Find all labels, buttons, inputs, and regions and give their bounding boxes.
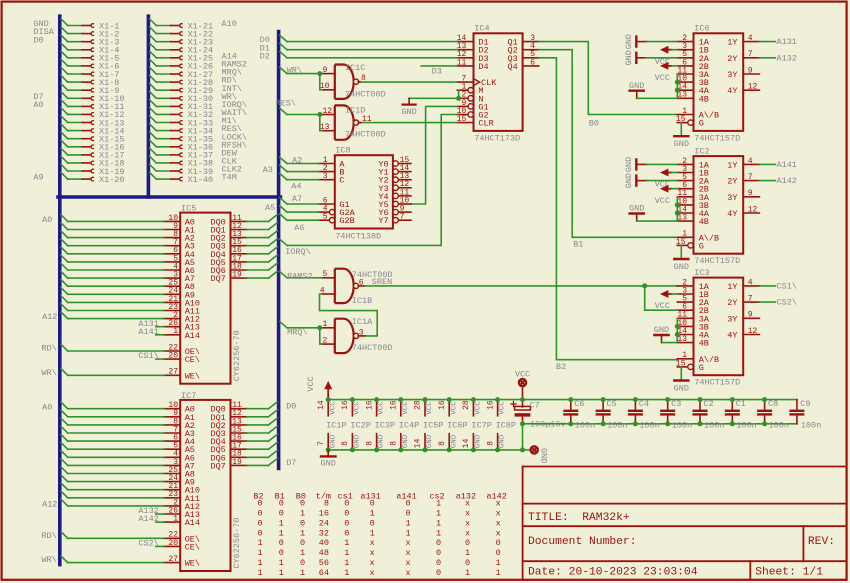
wire MRQ (bus B3 to IC1A) [280, 322, 322, 345]
svg-text:G: G [699, 241, 704, 251]
svg-text:0: 0 [370, 499, 375, 509]
svg-text:RES\: RES\ [276, 98, 296, 108]
svg-text:A14: A14 [185, 331, 200, 341]
svg-text:2Y: 2Y [727, 54, 737, 64]
svg-text:GND: GND [321, 459, 336, 469]
truth table row 7 [258, 558, 501, 568]
junction C7 bank [520, 421, 525, 426]
net label D0 (bus B3, IC7) [286, 401, 296, 411]
svg-text:1: 1 [344, 548, 349, 558]
net label LOCK\ (X1-35) [222, 132, 248, 142]
wire A5 (bus B1 to IC5) [61, 255, 164, 262]
IC2 pin 7 2Y [727, 173, 759, 187]
svg-text:16: 16 [319, 509, 329, 519]
junction IC7P GND [471, 447, 476, 452]
svg-text:DQ7: DQ7 [210, 274, 225, 284]
svg-text:74HCT00D: 74HCT00D [345, 130, 386, 140]
svg-text:1: 1 [258, 548, 263, 558]
IC8 pin 9 Y6 [378, 205, 411, 219]
svg-text:WE\: WE\ [185, 371, 200, 381]
svg-text:1: 1 [344, 558, 349, 568]
IC1D value 74HCT00D [345, 130, 386, 140]
wire IC1A out to IC1B pin4 [320, 294, 378, 336]
svg-text:1: 1 [258, 568, 263, 578]
svg-text:GND: GND [629, 81, 644, 91]
truth table row 4 [258, 528, 501, 538]
svg-text:B1: B1 [573, 239, 583, 249]
net label RD\ (X1-28) [222, 76, 237, 86]
svg-text:3: 3 [359, 328, 364, 337]
IC6 pin 12 4Y [727, 83, 759, 97]
svg-text:7: 7 [748, 173, 753, 182]
wire VCC to IC6 2B [672, 65, 678, 67]
svg-text:1: 1 [279, 558, 284, 568]
svg-text:7: 7 [748, 295, 753, 304]
svg-text:B2: B2 [556, 362, 566, 372]
wire CS1\ (IC3 output) [759, 285, 775, 287]
svg-text:1: 1 [300, 528, 305, 538]
IC4 pin 13 D2 [457, 42, 489, 56]
connector pin X1-28 [150, 76, 214, 88]
junction C8 bottom [762, 421, 767, 426]
truth table row 2 [258, 509, 501, 519]
wire A7 (bus B1 to IC7) [61, 459, 164, 466]
svg-text:VCC: VCC [450, 401, 458, 415]
IC6 pin 5 2A [677, 50, 710, 64]
wire GND rail [328, 449, 522, 451]
net label A10 (X1-21) [222, 19, 237, 29]
svg-text:WR\: WR\ [287, 65, 302, 75]
net label CS1\ [777, 282, 797, 292]
net label M1\ (X1-33) [222, 116, 237, 126]
IC5 pin 12 DQ1 [210, 222, 246, 236]
IC7 pin 25 A8 [164, 466, 195, 480]
IC8 pin 14 Y1 [378, 164, 411, 178]
wire A141 (IC5 A14) [156, 334, 164, 336]
net label A0 (bus B1) [33, 100, 43, 110]
svg-text:VCC: VCC [475, 401, 483, 415]
connector pin X1-38 [150, 156, 214, 168]
svg-text:56: 56 [319, 558, 329, 568]
svg-text:16: 16 [438, 400, 447, 410]
svg-text:32: 32 [319, 528, 329, 538]
net label A0 (IC5) [42, 215, 52, 225]
IC2 pin 15 G [676, 238, 704, 252]
svg-text:64: 64 [319, 568, 329, 578]
connector pin X1-27 [150, 67, 214, 79]
IC2 pin 3 1B [677, 165, 709, 179]
IC4 pin 6 Q4 [507, 58, 538, 72]
junction C6 bottom [568, 421, 573, 426]
svg-text:x: x [370, 538, 375, 548]
svg-text:G2B: G2B [339, 216, 354, 226]
wire RAMS2 (bus B3 to IC1B) [280, 272, 322, 278]
IC7 pin 10 A0 [164, 401, 195, 415]
power VCC arrow (IC2 1B) [655, 169, 672, 190]
connector pin X1-5 [61, 51, 119, 63]
IC4 pin 9 G1 [457, 99, 488, 113]
wire A2 (bus B1 to IC7) [61, 418, 164, 425]
svg-text:1Y: 1Y [727, 38, 737, 48]
svg-text:CS1\: CS1\ [777, 282, 797, 292]
C6 name [574, 399, 584, 409]
svg-text:1: 1 [436, 499, 441, 509]
IC3 pin 4 1Y [727, 278, 759, 292]
wire DQ1 IC7 to bus B3 [247, 410, 278, 417]
wire WR (bus B3 to IC1C) [280, 67, 322, 89]
svg-text:0: 0 [406, 509, 411, 519]
svg-text:A4: A4 [291, 182, 301, 192]
junction SREN (IC3) [642, 283, 647, 288]
ground GND (IC6 3A-4B) [629, 81, 644, 98]
wire GND to IC6 1A [646, 41, 677, 43]
IC7 name [181, 391, 196, 401]
IC4 pin 12 D3 [457, 50, 489, 64]
svg-text:CS2\: CS2\ [138, 539, 158, 549]
IC3 box [694, 278, 744, 376]
junction IC5P VCC [423, 397, 428, 402]
wire DQ0 IC5 to bus B3 [247, 215, 278, 222]
svg-text:GND: GND [674, 383, 689, 393]
IC7 pin 12 DQ1 [210, 409, 246, 423]
svg-text:x: x [406, 548, 411, 558]
truth table row 8 [258, 568, 501, 578]
svg-text:x: x [370, 558, 375, 568]
svg-text:x: x [496, 518, 501, 528]
svg-text:A132: A132 [777, 53, 797, 63]
net label A131 [138, 319, 158, 329]
wire A0 (bus B1 to IC5) [61, 215, 164, 222]
IC5 pin 7 A3 [164, 238, 195, 252]
IC8 pin 10 Y5 [378, 196, 411, 210]
net label IORQ\ (X1-31) [222, 100, 248, 110]
truth table row 3 [258, 518, 501, 528]
C2 name [703, 399, 713, 409]
IC7 pin 11 DQ0 [210, 401, 246, 415]
wire IC1D out to IC4 CLR [361, 122, 458, 124]
wire A132 (IC6 output) [759, 57, 775, 59]
IC1D input stubs [320, 107, 335, 132]
ground bar (IC6 1A) [624, 34, 647, 49]
IC5 pin 23 A11 [164, 303, 200, 317]
C3 name [671, 399, 681, 409]
svg-text:Document Number:: Document Number: [528, 536, 636, 548]
IC2 pin 1 A\B [677, 230, 719, 244]
svg-text:A0: A0 [42, 215, 52, 225]
svg-text:x: x [465, 518, 470, 528]
IC1A input stubs [322, 320, 335, 345]
wire A4 (bus B1 to IC5) [61, 247, 164, 254]
svg-text:100n: 100n [672, 420, 692, 430]
IC8 pin 1 A [319, 156, 346, 170]
IC7 pin 5 A5 [164, 442, 195, 456]
connector pin X1-21 [150, 19, 214, 31]
op-amp IC1D nand gate [335, 105, 359, 139]
svg-text:7: 7 [400, 213, 405, 222]
IC7 pin 20 CE\ [164, 539, 200, 553]
C6 value 100n [575, 420, 595, 430]
svg-text:1: 1 [300, 568, 305, 578]
IC3 pin 13 4B [677, 335, 709, 349]
IC1C name [345, 63, 365, 73]
svg-text:1: 1 [300, 509, 305, 519]
IC3 pin 15 G [676, 359, 704, 373]
svg-text:CLR: CLR [478, 119, 493, 129]
IC2 pin 13 4B [677, 214, 709, 228]
svg-text:4: 4 [748, 34, 753, 43]
wire GND to IC2 1A [646, 163, 677, 165]
svg-text:RAMS2: RAMS2 [287, 272, 313, 282]
IC1B input stubs [320, 270, 335, 295]
connector pin X1-1 [61, 19, 119, 31]
svg-text:A7: A7 [292, 194, 302, 204]
net label RD\ (IC5) [41, 344, 56, 354]
svg-text:9: 9 [748, 66, 753, 75]
svg-text:8: 8 [341, 441, 350, 446]
C3 value 100n [672, 420, 692, 430]
svg-text:D4: D4 [478, 62, 488, 72]
wire DQ0 IC7 to bus B3 [247, 402, 278, 409]
svg-text:4B: 4B [699, 94, 709, 104]
junction C6 top [568, 397, 573, 402]
svg-text:8: 8 [324, 499, 329, 509]
IC1A name [352, 317, 373, 327]
junction C5 bottom [601, 421, 606, 426]
IC7P VCC pin 28 [462, 400, 482, 416]
net label WR\ (IC5) [41, 368, 56, 378]
svg-text:3: 3 [323, 172, 328, 181]
wire IC3 3A-4B tie [676, 318, 678, 342]
svg-text:IC2P: IC2P [350, 421, 370, 431]
junction C7 GND [520, 447, 525, 452]
IC7 pin 18 DQ6 [210, 450, 246, 464]
truth table row 1 [258, 499, 501, 509]
IC6 value 74HCT157D [694, 133, 740, 143]
IC4 value 74HCT173D [474, 133, 520, 143]
IC3 pin 7 2Y [727, 295, 759, 309]
IC6 pin 1 A\B [677, 107, 719, 121]
junction IC3P GND [374, 447, 379, 452]
IC2 pin 14 4A [677, 205, 710, 219]
svg-text:IC4P: IC4P [399, 421, 419, 431]
svg-text:48: 48 [319, 548, 329, 558]
title block frame [523, 467, 847, 580]
svg-text:GND: GND [354, 434, 362, 448]
svg-text:14: 14 [317, 400, 326, 410]
IC3 pin 12 4Y [727, 327, 759, 341]
svg-text:CE\: CE\ [185, 355, 200, 365]
net label CS2\ [138, 539, 158, 549]
IC5 pin 6 A4 [164, 246, 195, 260]
svg-text:IC7: IC7 [181, 391, 196, 401]
IC4 box [474, 33, 523, 131]
svg-text:G: G [699, 119, 704, 129]
svg-text:1: 1 [436, 509, 441, 519]
wire B2 (IC4 Q3 to IC3 A/B) [539, 58, 678, 360]
capacitor C5 [596, 400, 611, 424]
IC5 pin 8 A2 [164, 230, 195, 244]
IC8P GND pin 8 [486, 434, 506, 450]
ground bar (IC6 2A) [624, 50, 647, 65]
IC8 pin 3 C [319, 172, 345, 186]
net label A6 [294, 223, 304, 233]
svg-text:4B: 4B [699, 217, 709, 227]
wire A3 (bus B1 to IC5) [61, 239, 164, 246]
junction C1 bottom [730, 421, 735, 426]
svg-text:x: x [465, 509, 470, 519]
IC5 pin 1 A14 [164, 327, 200, 341]
IC1C output stub [358, 74, 366, 83]
wire A3 (bus B1 to IC7) [61, 426, 164, 433]
connector pin X1-31 [150, 100, 214, 112]
svg-text:4B: 4B [699, 339, 709, 349]
junction IC3P VCC [374, 397, 379, 402]
wire A131 (IC6 output) [759, 41, 775, 43]
net label CLK2 (X1-39) [222, 165, 242, 175]
wire GND to IC6 2A [646, 57, 677, 59]
svg-text:C5: C5 [607, 399, 617, 409]
svg-text:16: 16 [365, 400, 374, 410]
wire GND to IC3 4B [662, 342, 678, 344]
IC8 box [335, 155, 393, 228]
IC5 pin 20 CE\ [164, 352, 200, 366]
IC5P VCC pin 28 [414, 400, 434, 416]
C4 name [639, 399, 649, 409]
rev text [808, 536, 835, 548]
connector pin X1-32 [150, 108, 214, 120]
wire C7 to GND [523, 424, 530, 450]
svg-text:IC5P: IC5P [423, 421, 443, 431]
wire RES (bus B3 to IC1D) [280, 108, 322, 130]
wire A8 (bus B1 to IC7) [61, 467, 164, 474]
IC3 pin 9 3Y [727, 311, 759, 325]
net label D7 (bus B1) [33, 92, 43, 102]
junction IC5P GND [423, 447, 428, 452]
IC5 pin 24 A9 [164, 287, 195, 301]
net label CLK (X1-38) [222, 157, 238, 167]
svg-text:1: 1 [258, 558, 263, 568]
IC7 pin 3 A7 [164, 458, 195, 472]
svg-text:3Y: 3Y [727, 314, 737, 324]
IC2P label [350, 421, 370, 431]
svg-text:GND: GND [378, 434, 386, 448]
svg-text:IC1P: IC1P [326, 421, 346, 431]
connector pin X1-24 [150, 43, 214, 55]
svg-text:74HCT173D: 74HCT173D [474, 133, 520, 143]
svg-text:VCC: VCC [354, 401, 362, 415]
svg-text:8: 8 [361, 74, 366, 83]
IC7 pin 16 DQ4 [210, 434, 246, 448]
svg-text:MRQ\: MRQ\ [287, 328, 307, 338]
connector pin X1-23 [150, 35, 214, 47]
svg-text:1: 1 [496, 558, 501, 568]
IC4 pin 2 N [457, 91, 483, 105]
svg-text:A10: A10 [222, 19, 237, 29]
IC7P GND pin 14 [462, 434, 482, 450]
capacitor C7 [511, 402, 530, 424]
junction IC4P GND [398, 447, 403, 452]
svg-text:0: 0 [258, 509, 263, 519]
svg-text:CY62256-70: CY62256-70 [232, 330, 242, 381]
net label D1 (bus B3) [260, 43, 270, 53]
svg-text:VCC: VCC [426, 401, 434, 415]
svg-text:2Y: 2Y [727, 298, 737, 308]
connector pin X1-33 [150, 116, 214, 128]
ground GND (IC4 M/N) [401, 98, 416, 117]
wire VCC to IC6 1B [672, 49, 678, 51]
connector pin X1-25 [150, 51, 214, 63]
svg-text:0: 0 [279, 538, 284, 548]
net label WAIT\ (X1-32) [222, 108, 248, 118]
net label DISA (bus B1) [33, 27, 54, 37]
svg-text:0: 0 [496, 548, 501, 558]
IC6 pin 11 3A [677, 66, 710, 80]
connector pin X1-35 [150, 132, 214, 144]
wire IORQ (bus B3 to IC4 G2) [280, 115, 458, 246]
svg-text:IC6P: IC6P [447, 421, 467, 431]
svg-text:74HCT157D: 74HCT157D [694, 256, 740, 266]
IC7 pin 15 DQ3 [210, 425, 246, 439]
ground bar (IC2 1A) [624, 157, 647, 172]
svg-text:A2: A2 [292, 155, 302, 165]
svg-text:74HCT157D: 74HCT157D [694, 378, 740, 388]
IC7 pin 27 WE\ [164, 555, 200, 569]
svg-text:VCC: VCC [378, 401, 386, 415]
IC4 pin 5 Q3 [507, 50, 538, 64]
svg-text:1: 1 [173, 515, 178, 524]
junction IC6 3B [675, 80, 680, 85]
wire A132 (IC7 A13) [156, 513, 164, 515]
connector pin X1-22 [150, 27, 214, 39]
svg-text:0: 0 [344, 499, 349, 509]
svg-text:7: 7 [748, 50, 753, 59]
svg-text:0: 0 [465, 538, 470, 548]
svg-text:Y7: Y7 [378, 216, 388, 226]
svg-text:0: 0 [300, 558, 305, 568]
net label SREN [372, 277, 392, 287]
IC2 pin 10 3B [677, 197, 709, 211]
svg-text:1: 1 [300, 548, 305, 558]
svg-text:IC8: IC8 [335, 146, 350, 156]
svg-text:1: 1 [173, 327, 178, 336]
ground GND (IC6 G) [674, 136, 689, 149]
IC3P GND pin 8 [365, 434, 385, 450]
svg-text:x: x [465, 499, 470, 509]
svg-text:0: 0 [406, 499, 411, 509]
svg-text:1: 1 [496, 568, 501, 578]
svg-text:4: 4 [748, 157, 753, 166]
svg-text:8: 8 [486, 441, 495, 446]
wire DQ7 IC5 to bus B3 [247, 271, 278, 278]
junction C3 bottom [665, 421, 670, 426]
bus B2 (second vertical) [147, 16, 151, 197]
net label RES\ (X1-34) [222, 124, 242, 134]
IC2 value 74HCT157D [694, 256, 740, 266]
junction WR [317, 71, 322, 76]
svg-text:1: 1 [279, 518, 284, 528]
IC5 value CY62256-70 [232, 330, 242, 381]
svg-text:16: 16 [341, 400, 350, 410]
svg-text:20: 20 [168, 352, 178, 361]
power VCC arrow (IC6 2B) [655, 62, 672, 83]
svg-text:A3: A3 [263, 165, 273, 175]
IC3 pin 10 3B [677, 319, 709, 333]
IC8 name [335, 146, 350, 156]
IC5 pin 19 DQ7 [210, 271, 246, 285]
wire DQ5 IC5 to bus B3 [247, 255, 278, 262]
IC6P GND pin 8 [438, 434, 458, 450]
IC6 name [694, 24, 709, 34]
